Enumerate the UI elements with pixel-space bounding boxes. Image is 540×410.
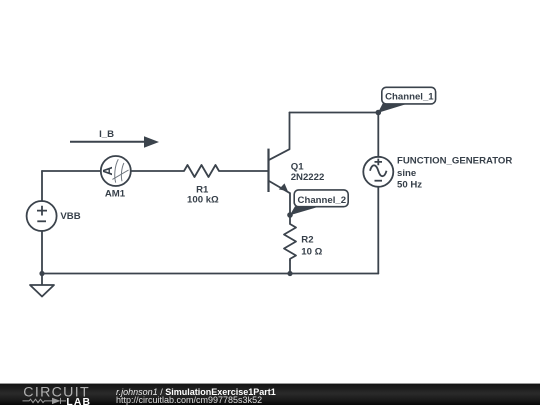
footer credit line [116, 388, 276, 397]
wire VBB bottom [41, 231, 43, 274]
svg-text:sine: sine [397, 168, 416, 179]
flag Channel_2 [290, 190, 348, 215]
wire function generator bottom [377, 187, 379, 274]
emitter arrow head [279, 183, 288, 191]
wire function generator top [377, 113, 379, 157]
svg-text:VBB: VBB [60, 211, 80, 222]
wire VBB top to main horizontal [41, 171, 43, 201]
svg-text:R2: R2 [301, 234, 313, 245]
node dot Channel_1 [376, 110, 382, 116]
footer bar [0, 384, 540, 405]
node dot VBB/ground junction [39, 271, 44, 276]
svg-text:Channel_1: Channel_1 [385, 92, 434, 103]
wire collector vertical [289, 113, 291, 150]
node dot R2 bottom [287, 271, 292, 276]
ground [30, 285, 54, 297]
node dot Channel_2 [287, 212, 293, 218]
svg-text:10 Ω: 10 Ω [301, 246, 322, 257]
CircuitLab logo [0, 384, 110, 405]
wire top horizontal [290, 112, 379, 114]
function generator source [363, 157, 393, 187]
wire R2 bottom [289, 261, 291, 274]
svg-text:LAB: LAB [66, 397, 91, 405]
wire ammeter to R1 [131, 170, 184, 172]
svg-text:AM1: AM1 [105, 189, 126, 200]
ammeter AM1 [101, 156, 131, 186]
wire emitter to R2 [289, 193, 291, 224]
flag Channel_1 [378, 87, 436, 113]
wire R1 to Q1 base [219, 170, 269, 172]
svg-text:50 Hz: 50 Hz [397, 179, 422, 190]
svg-text:FUNCTION_GENERATOR: FUNCTION_GENERATOR [397, 155, 512, 166]
svg-text:I_B: I_B [99, 129, 114, 140]
footer bar top soft edge [0, 383, 540, 384]
svg-text:Channel_2: Channel_2 [298, 195, 347, 206]
current arrow I_B [70, 136, 159, 148]
wire ground stem [41, 274, 43, 286]
wire bottom horizontal [42, 273, 378, 275]
svg-text:2N2222: 2N2222 [291, 172, 325, 183]
svg-text:A: A [101, 166, 115, 175]
svg-text:Q1: Q1 [291, 161, 304, 172]
transistor Q1 [269, 149, 291, 194]
wire left horizontal to ammeter [42, 170, 101, 172]
resistor R1 [184, 165, 219, 177]
voltage source VBB [27, 201, 57, 231]
svg-text:100 kΩ: 100 kΩ [187, 195, 219, 206]
resistor R2 [284, 224, 296, 261]
logo wire resistor diode [23, 398, 67, 404]
